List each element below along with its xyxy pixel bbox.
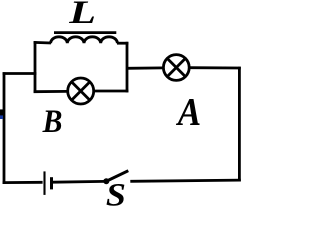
inductor L core bar [54,31,116,34]
label L [68,0,96,31]
inductor L coil [51,37,118,44]
label B [42,103,63,140]
wire: battery to switch pivot [53,180,105,184]
svg-text:B: B [42,103,63,140]
wire: lamp A to right corner [190,66,241,69]
label S [106,177,126,213]
wire: parallel block bottom-left lead [34,90,67,93]
battery cell [45,171,52,195]
wire: block to lamp A [127,67,163,70]
svg-text:A: A [176,91,201,134]
wire: parallel block top-right lead [117,42,128,45]
wire: parallel block top-left lead [34,41,51,44]
wire: outer left vertical [3,72,6,184]
wire: parallel block left vertical [34,41,37,93]
wire: switch to bottom-right corner [130,180,241,181]
wire: parallel block bottom-right lead [95,90,129,93]
label A [176,91,201,134]
svg-text:L: L [68,0,96,31]
svg-text:S: S [106,177,126,208]
lamp A [163,55,189,81]
switch S pivot dot [103,178,109,184]
wire: left stub from block to outer loop [3,72,37,75]
wire: parallel block right vertical [126,42,129,93]
wire: bottom-left segment to battery [3,181,43,184]
switch S blade [106,171,129,182]
cropped mark at left edge [0,109,4,119]
lamp B [68,78,94,104]
wire: outer right vertical [238,67,241,182]
